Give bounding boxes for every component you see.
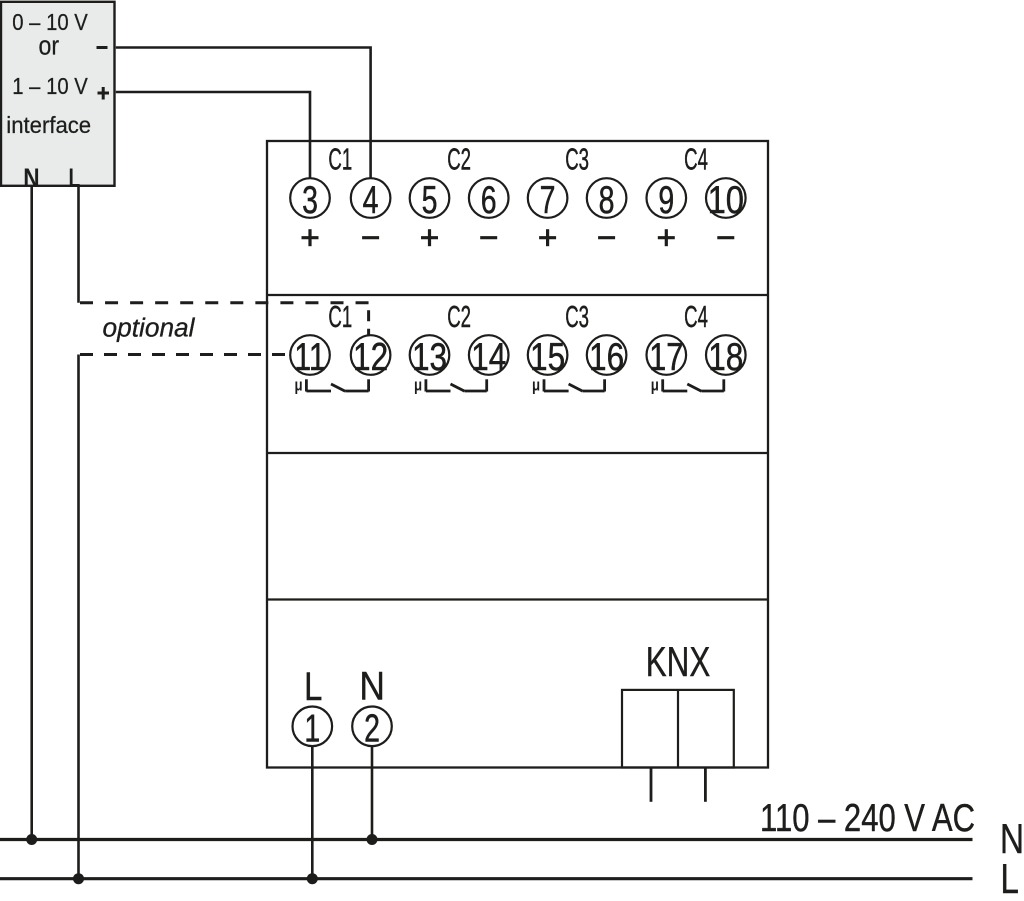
plus mark under terminal 7 <box>539 229 556 246</box>
wire terminal 1 to L rail <box>311 747 314 879</box>
svg-text:16: 16 <box>589 336 624 379</box>
svg-text:C2: C2 <box>447 143 471 177</box>
terminal 7 <box>528 178 568 222</box>
relay contact C2 (terminals 13-14) <box>414 376 487 395</box>
junction dot terminal 2 wire / N rail <box>367 834 378 845</box>
terminal 12 <box>351 335 391 379</box>
svg-text:5: 5 <box>422 179 438 222</box>
plus mark under terminal 3 <box>302 229 319 246</box>
svg-text:C2: C2 <box>447 300 471 334</box>
svg-text:15: 15 <box>530 336 565 379</box>
svg-text:13: 13 <box>412 336 447 379</box>
svg-text:L: L <box>1000 856 1019 901</box>
junction dot N wire / N rail <box>26 834 37 845</box>
wire L optional tap to L rail <box>77 355 80 879</box>
svg-text:or: or <box>39 32 60 61</box>
dashed optional wire to terminal 12 (horizontal run) <box>80 301 369 304</box>
relay contact C4 (terminals 17-18) <box>651 376 724 395</box>
interface box 0-10V / 1-10V <box>1 2 115 186</box>
svg-text:12: 12 <box>353 336 388 379</box>
terminal 2 <box>352 707 392 751</box>
dashed optional wire to terminal 11 <box>80 353 290 356</box>
terminal 5 <box>410 178 450 222</box>
plus mark under terminal 5 <box>421 229 438 246</box>
svg-text:μ: μ <box>532 376 540 395</box>
terminal 4 <box>351 178 391 222</box>
svg-text:11: 11 <box>294 337 326 379</box>
svg-text:2: 2 <box>364 707 380 750</box>
svg-text:optional: optional <box>103 315 196 343</box>
wire minus interface to terminal 4 <box>116 48 371 179</box>
junction dot L wire / L rail <box>73 873 84 884</box>
svg-text:9: 9 <box>658 179 674 222</box>
KNX pin 1 <box>650 768 653 802</box>
N rail <box>0 838 973 841</box>
svg-text:C1: C1 <box>328 143 352 177</box>
svg-text:μ: μ <box>651 376 659 395</box>
svg-text:18: 18 <box>708 336 743 379</box>
relay contact C1 (terminals 11-12) <box>294 376 368 395</box>
dashed optional wire to terminal 12 (vertical run) <box>367 303 370 336</box>
minus mark under terminal 6 <box>480 236 497 239</box>
svg-text:interface: interface <box>6 112 91 137</box>
terminal 15 <box>528 335 568 379</box>
svg-text:C3: C3 <box>565 300 589 334</box>
svg-text:C4: C4 <box>684 300 708 334</box>
terminal 17 <box>647 335 687 379</box>
svg-text:C1: C1 <box>328 300 352 334</box>
svg-text:1 – 10 V: 1 – 10 V <box>12 73 88 100</box>
terminal 13 <box>410 335 450 379</box>
section divider 3 <box>267 598 768 600</box>
svg-text:3: 3 <box>302 179 318 222</box>
terminal 14 <box>469 335 509 379</box>
junction dot terminal 1 wire / L rail <box>307 873 318 884</box>
svg-text:C4: C4 <box>684 143 708 177</box>
terminal 9 <box>647 178 687 222</box>
terminal 10 <box>706 178 746 221</box>
KNX connector block <box>622 690 734 768</box>
KNX pin 2 <box>704 768 707 802</box>
plus polarity mark <box>98 87 110 100</box>
terminal 3 <box>290 178 330 222</box>
section divider 2 <box>267 452 768 454</box>
minus mark under terminal 4 <box>362 236 379 239</box>
wire L interface box to optional tap <box>77 186 80 303</box>
L rail <box>0 877 973 880</box>
svg-text:μ: μ <box>414 376 422 395</box>
svg-text:1: 1 <box>304 707 320 750</box>
svg-text:10: 10 <box>708 179 744 222</box>
svg-text:μ: μ <box>294 376 302 395</box>
wire N interface box to N rail <box>30 186 33 840</box>
svg-text:7: 7 <box>540 179 556 222</box>
terminal 6 <box>469 178 509 222</box>
svg-text:17: 17 <box>649 336 683 379</box>
svg-text:110 – 240 V AC: 110 – 240 V AC <box>760 797 975 840</box>
terminal 1 <box>293 707 333 751</box>
terminal 18 <box>706 335 746 379</box>
terminal 11 <box>290 335 330 379</box>
wire terminal 2 to N rail <box>371 747 374 840</box>
section divider 1 <box>267 294 768 296</box>
svg-text:8: 8 <box>599 179 615 222</box>
svg-text:KNX: KNX <box>646 637 710 685</box>
svg-text:14: 14 <box>471 336 506 379</box>
wire plus interface to terminal 3 <box>116 92 310 178</box>
relay contact C3 (terminals 15-16) <box>532 376 605 395</box>
terminal 8 <box>587 178 627 222</box>
svg-text:6: 6 <box>481 179 497 222</box>
svg-text:N: N <box>359 664 385 708</box>
minus polarity mark <box>97 46 108 49</box>
device box <box>267 141 768 768</box>
svg-text:C3: C3 <box>565 143 589 177</box>
minus mark under terminal 8 <box>598 236 615 239</box>
svg-text:4: 4 <box>363 179 379 222</box>
plus mark under terminal 9 <box>658 229 675 246</box>
terminal 16 <box>587 335 627 379</box>
svg-text:L: L <box>304 664 322 709</box>
minus mark under terminal 10 <box>717 236 734 239</box>
